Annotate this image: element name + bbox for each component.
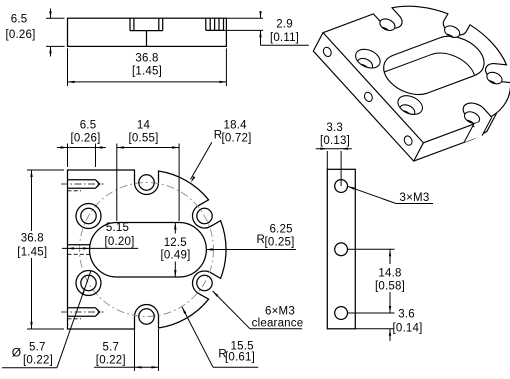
svg-text:[0.11]: [0.11] (270, 32, 299, 44)
svg-text:[0.61]: [0.61] (225, 352, 255, 364)
svg-text:[1.45]: [1.45] (132, 66, 162, 78)
label 6xM3 clearance (213, 291, 304, 330)
isometric notch holes (372, 17, 505, 133)
svg-text:3.3: 3.3 (326, 122, 343, 134)
svg-text:6×M3: 6×M3 (265, 306, 295, 318)
svg-text:[1.45]: [1.45] (17, 247, 47, 259)
svg-text:[0.13]: [0.13] (320, 135, 350, 147)
side view outline (327, 169, 355, 328)
svg-text:12.5: 12.5 (164, 237, 187, 249)
isometric side holes (322, 46, 414, 147)
svg-text:[0.22]: [0.22] (23, 355, 53, 367)
dim 2.9 [0.11] recess depth (224, 11, 309, 45)
isometric bottom notch through-cut (449, 117, 492, 142)
dim 3.6 [0.14] bottom hole offset (355, 309, 422, 342)
svg-text:[0.14]: [0.14] (393, 323, 423, 335)
counterbored hole at 210 deg (76, 271, 101, 296)
label 3xM3 (348, 186, 433, 204)
dim 5.15 line (62, 247, 138, 249)
dim 5.7 [0.22] notch width (94, 329, 158, 371)
svg-text:[0.26]: [0.26] (71, 133, 101, 145)
dim 14.8 [0.58] hole spacing (348, 249, 405, 313)
side view hole 1 (335, 180, 348, 193)
side view hole 2 (335, 243, 348, 256)
isometric pocket floor (364, 47, 486, 118)
svg-text:36.8: 36.8 (135, 53, 158, 65)
svg-text:5.7: 5.7 (103, 342, 120, 354)
bolt circle (dash-dot) (80, 183, 214, 317)
svg-text:Ø: Ø (12, 346, 22, 360)
svg-text:18.4: 18.4 (224, 120, 248, 132)
svg-text:5.15: 5.15 (106, 222, 129, 234)
svg-text:3.6: 3.6 (398, 309, 415, 321)
svg-text:[0.22]: [0.22] (96, 355, 126, 367)
side view hole 3 (335, 307, 348, 320)
svg-text:6.25: 6.25 (270, 224, 293, 236)
middle side hole section (68, 245, 90, 255)
dim 3.3 [0.13] (316, 122, 352, 186)
dim 6.5 [0.26] thread depth (57, 120, 106, 168)
dim 36.8 [1.45] top view width (68, 48, 227, 86)
svg-text:[0.58]: [0.58] (375, 281, 405, 293)
isometric counterbored holes (351, 46, 428, 123)
top view right notch (206, 18, 224, 30)
hole at 90 deg (139, 175, 154, 190)
svg-text:[0.20]: [0.20] (105, 236, 135, 248)
center obround slot (90, 223, 207, 278)
dim 12.5 [0.49] obround height (161, 223, 191, 278)
svg-text:6.5: 6.5 (80, 120, 97, 132)
hole at 270 deg (139, 309, 154, 324)
dim R6.25 [0.25] obround end radius (206, 224, 296, 251)
top view middle slot (130, 18, 163, 46)
svg-text:[0.26]: [0.26] (6, 29, 36, 41)
svg-text:14: 14 (137, 120, 151, 132)
svg-text:36.8: 36.8 (21, 233, 44, 245)
front view outline (68, 170, 227, 329)
svg-text:3×M3: 3×M3 (400, 192, 430, 204)
dim 14 [0.55] obround length (117, 120, 179, 222)
dim dia 5.7 [0.22] counterbore leader (2, 271, 91, 368)
svg-text:clearance: clearance (252, 318, 304, 330)
svg-text:6.5: 6.5 (11, 14, 28, 26)
svg-text:[0.72]: [0.72] (222, 133, 252, 145)
hole at 30 deg (197, 208, 212, 223)
dim R15.5 [0.61] bolt circle radius (182, 307, 258, 367)
dim 5.15 [0.20] text (105, 222, 135, 248)
side hole section at y=312.0 (61, 308, 104, 319)
dim 6.5 [0.26] plate thickness (6, 9, 65, 57)
svg-text:[0.25]: [0.25] (265, 237, 295, 249)
svg-text:14.8: 14.8 (378, 268, 401, 280)
isometric notch wall bands (373, 32, 500, 132)
svg-text:2.9: 2.9 (276, 19, 293, 31)
dim R18.4 [0.72] outer radius leader (191, 120, 252, 183)
svg-text:[0.55]: [0.55] (129, 133, 159, 145)
svg-text:[0.49]: [0.49] (161, 250, 191, 262)
side hole section at y=184.0 (61, 180, 104, 191)
top view plate outline (68, 18, 227, 46)
dim 36.8 [1.45] front height (17, 170, 64, 329)
isometric side faces (313, 33, 496, 161)
counterbored hole at 150 deg (76, 204, 101, 229)
svg-text:5.7: 5.7 (29, 342, 46, 354)
hole at 330 deg (197, 275, 212, 290)
